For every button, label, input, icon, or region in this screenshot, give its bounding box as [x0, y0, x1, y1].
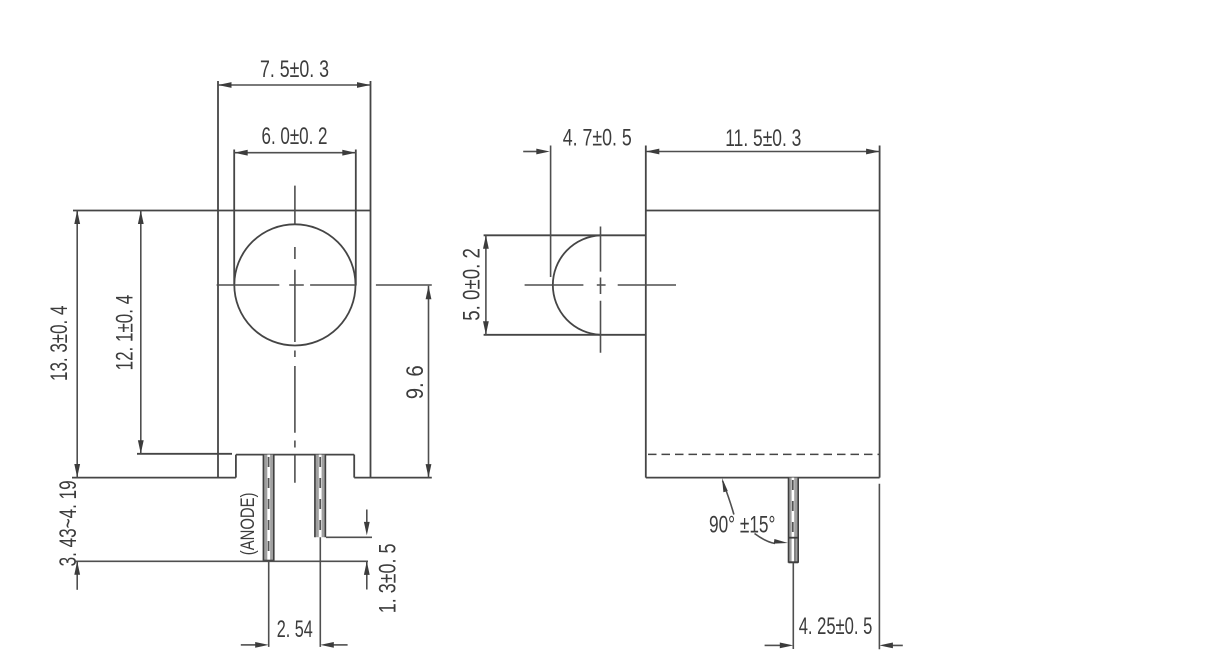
- arrow 11.5 right: [866, 149, 880, 155]
- 11.5 dimension line: [646, 151, 880, 153]
- body front face with 11.5 extension: [645, 146, 647, 478]
- 3.43 dimension arrow tail: [76, 561, 78, 590]
- arrow 2.54 right: [320, 642, 334, 648]
- arrow 5.0 top: [483, 235, 489, 249]
- arrow 2.54 left: [255, 642, 269, 648]
- svg-text:4. 7±0. 5: 4. 7±0. 5: [563, 125, 632, 152]
- arrow 1.3 top: [364, 522, 370, 536]
- 90deg leader to leg: [755, 534, 776, 544]
- arrowheads: [74, 82, 893, 648]
- arrow 7.5 right: [357, 82, 371, 88]
- right leg centerline extension: [319, 537, 321, 647]
- arrow 12.1 top: [138, 211, 144, 225]
- bottom long extension line y561: [76, 560, 368, 562]
- arrow 12.1 bottom: [138, 440, 144, 454]
- svg-text:9. 6: 9. 6: [402, 365, 429, 399]
- svg-text:6. 0±0. 2: 6. 0±0. 2: [262, 123, 328, 150]
- arrow 6.0 left: [234, 150, 248, 156]
- 90deg leader to body edge: [723, 481, 734, 515]
- housing right edge with 7.5 extension: [370, 81, 372, 478]
- hole wall left / 6.0 extension: [233, 150, 235, 286]
- body top edge: [646, 210, 880, 212]
- plateau step left: [235, 455, 237, 478]
- hole wall right / 6.0 extension: [355, 150, 357, 286]
- 6.0 dimension line: [234, 152, 356, 154]
- svg-text:(ANODE): (ANODE): [238, 493, 259, 556]
- arrow leader 90deg top: [722, 478, 728, 492]
- svg-text:12. 1±0. 4: 12. 1±0. 4: [112, 295, 139, 371]
- 1.3 dimension upper tail: [366, 510, 368, 523]
- 2.54 left tail: [241, 644, 256, 646]
- 4.25 right extension line: [878, 484, 880, 650]
- arrow 11.5 left: [646, 149, 660, 155]
- 4.25 left tail: [765, 644, 780, 646]
- LED dome arc: [553, 235, 601, 334]
- svg-text:11. 5±0. 3: 11. 5±0. 3: [725, 125, 801, 152]
- bottom plateau with 12.1 extension: [137, 453, 232, 455]
- 1.3 dimension lower tail: [366, 561, 368, 589]
- arrow 13.3 bottom: [74, 464, 80, 478]
- left leg centerline extension: [268, 561, 270, 647]
- 13.3 dimension line: [76, 211, 78, 478]
- svg-text:4. 25±0. 5: 4. 25±0. 5: [799, 613, 873, 640]
- body bottom edge: [646, 477, 880, 479]
- plateau segment: [236, 454, 354, 456]
- 12.1 dimension line: [140, 211, 142, 454]
- horizontal centerline front view: [217, 284, 432, 286]
- cylinder top line with 5.0 extension: [484, 234, 646, 236]
- plateau step right: [353, 455, 355, 478]
- arrow 13.3 top: [74, 211, 80, 225]
- outer bottom right with 9.6 extension: [354, 477, 432, 479]
- LED circle: [234, 224, 355, 345]
- arrow 5.0 bottom: [483, 321, 489, 335]
- vertical centerline front view: [294, 186, 296, 483]
- svg-text:7. 5±0. 3: 7. 5±0. 3: [260, 56, 329, 83]
- 7.5 dimension line: [218, 84, 371, 86]
- right leg: [315, 455, 326, 538]
- svg-text:90° ±15°: 90° ±15°: [709, 512, 775, 539]
- side view leg: [789, 478, 799, 563]
- 4.7 left arrow tail: [523, 151, 537, 153]
- svg-text:2. 54: 2. 54: [277, 616, 313, 643]
- outer bottom left with extension: [72, 477, 236, 479]
- left leg (anode): [263, 455, 273, 562]
- 9.6 dimension line: [428, 286, 430, 478]
- arrow 7.5 left: [218, 82, 232, 88]
- 2.54 right tail: [333, 644, 348, 646]
- arrow 1.3 bottom: [364, 561, 370, 575]
- body right edge with extensions: [879, 146, 881, 478]
- arrow 4.25 left: [780, 643, 794, 649]
- svg-text:3. 43~4. 19: 3. 43~4. 19: [55, 480, 82, 566]
- SIDE VIEW: [484, 146, 880, 478]
- hidden dashed line: [648, 453, 879, 455]
- side view vertical centerline: [600, 227, 602, 353]
- svg-text:1. 3±0. 5: 1. 3±0. 5: [375, 544, 402, 614]
- arrow 3.43 bottom: [74, 561, 80, 575]
- cylinder bottom line with 5.0 extension: [484, 334, 646, 336]
- 5.0 dimension line: [485, 235, 487, 334]
- arrow 9.6 top: [426, 286, 432, 300]
- arrow 6.0 right: [342, 150, 356, 156]
- side view horizontal centerline: [525, 284, 676, 286]
- svg-text:5. 0±0. 2: 5. 0±0. 2: [458, 248, 485, 321]
- 4.7 extension line: [550, 146, 552, 278]
- arrow 9.6 bottom: [426, 464, 432, 478]
- arrow 4.25 right: [879, 643, 893, 649]
- svg-text:13. 3±0. 4: 13. 3±0. 4: [46, 306, 73, 381]
- housing left edge with 7.5 extension: [217, 81, 219, 478]
- arrow leader 90deg leg: [774, 539, 788, 544]
- dimension texts: [46, 56, 872, 643]
- 4.25 right tail: [885, 644, 903, 646]
- side leg centerline extension: [792, 563, 794, 649]
- 1.3 upper extension line: [326, 536, 372, 538]
- housing top edge with left extension: [73, 210, 371, 212]
- arrow 4.7 left: [536, 149, 550, 155]
